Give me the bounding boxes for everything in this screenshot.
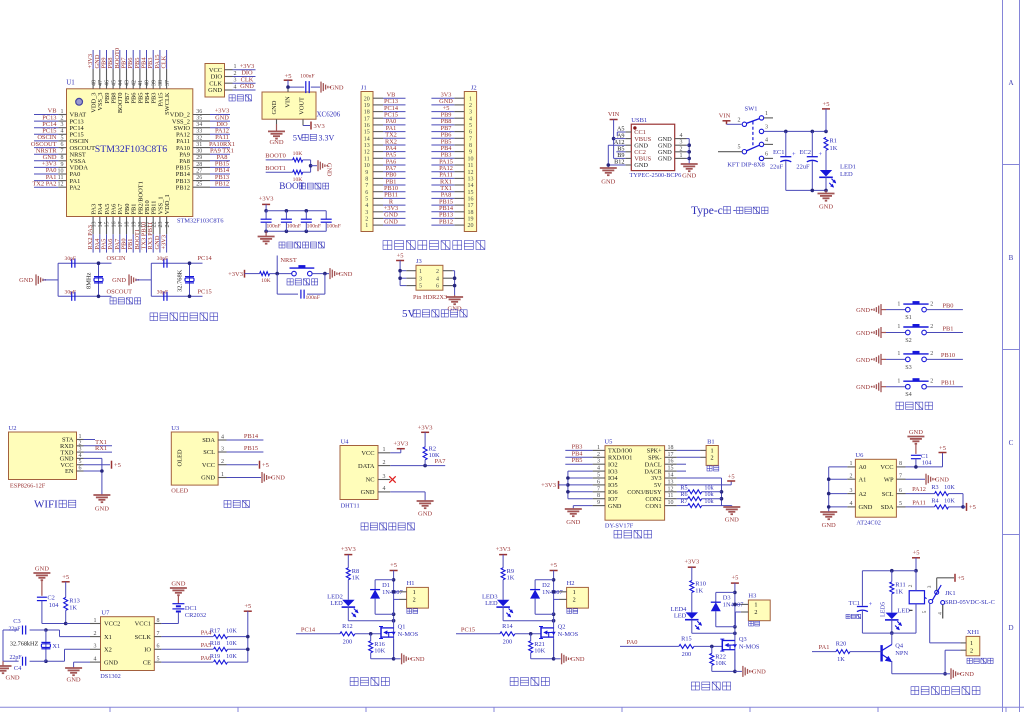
U7 pin 7 SCLK xyxy=(135,631,162,641)
svg-text:VCC: VCC xyxy=(880,464,893,471)
svg-text:45: 45 xyxy=(111,80,117,86)
svg-text:2: 2 xyxy=(436,269,439,275)
net label PB14 (U3) xyxy=(227,433,264,440)
svg-text:GND: GND xyxy=(271,100,278,114)
svg-text:PB12: PB12 xyxy=(439,218,453,225)
svg-text:PB15: PB15 xyxy=(244,445,258,452)
title 5V降压3.3V xyxy=(293,133,335,143)
ground (J3) xyxy=(446,295,463,312)
svg-text:GND: GND xyxy=(822,522,836,529)
title 复位电路 xyxy=(287,279,318,285)
title Type-c口-电源电路 xyxy=(691,205,768,217)
svg-text:10: 10 xyxy=(58,168,64,174)
svg-text:8: 8 xyxy=(61,155,64,161)
svg-text:1: 1 xyxy=(419,269,422,275)
U1 pin 24 VDD_1 (bottom) xyxy=(161,194,171,252)
label Pin HDR2X3 xyxy=(413,294,447,301)
wire U6 VCC to +5 xyxy=(906,453,943,469)
push button S4 xyxy=(897,378,963,398)
wire U4 GND xyxy=(390,492,425,501)
J1 pin 3 net +3V3 xyxy=(365,205,405,216)
U1 pin 10 PA0 (left) xyxy=(34,167,80,178)
label 白色底座 (XH1) xyxy=(967,658,993,663)
svg-text:100nF: 100nF xyxy=(287,224,301,230)
svg-text:13: 13 xyxy=(364,143,370,149)
svg-text:10K: 10K xyxy=(226,653,237,660)
svg-text:5: 5 xyxy=(365,197,368,203)
J1 pin 5 net PB11 xyxy=(365,192,405,203)
svg-text:6: 6 xyxy=(899,488,902,494)
svg-text:1: 1 xyxy=(221,472,224,478)
crystal X1 xyxy=(41,642,60,650)
label 钽电容 (TC1) xyxy=(846,614,861,618)
U1 pin 7 NRST (left) xyxy=(34,147,86,158)
connector H2 body xyxy=(559,580,588,608)
svg-text:NPN: NPN xyxy=(895,650,908,657)
power port +3V3 (reset) xyxy=(228,270,259,278)
svg-text:VOUT: VOUT xyxy=(299,97,306,115)
svg-text:U2: U2 xyxy=(9,425,17,432)
svg-text:2: 2 xyxy=(365,217,368,223)
svg-text:24: 24 xyxy=(165,222,171,228)
J1 pin 7 net PB1 xyxy=(365,178,405,189)
ground GND (XC6206) xyxy=(268,119,285,146)
svg-text:6: 6 xyxy=(365,190,368,196)
svg-text:+3V3: +3V3 xyxy=(259,195,274,202)
capacitor 100nF filter 1 xyxy=(261,211,281,232)
wire H3 pins xyxy=(733,603,741,627)
svg-text:PA7: PA7 xyxy=(435,458,447,465)
wire VIN to VBUS pins xyxy=(612,120,626,159)
svg-text:12: 12 xyxy=(468,170,474,176)
title 音乐模块 xyxy=(614,530,652,538)
svg-text:38: 38 xyxy=(158,80,164,86)
svg-text:10K: 10K xyxy=(226,640,237,647)
svg-text:4: 4 xyxy=(365,203,368,209)
svg-text:SRD-05VDC-SL-C: SRD-05VDC-SL-C xyxy=(945,599,995,606)
svg-text:3: 3 xyxy=(597,459,600,465)
LED1 xyxy=(819,164,856,191)
USB1 pin A5 CC1 xyxy=(617,126,646,137)
svg-text:3: 3 xyxy=(79,447,82,453)
svg-text:5: 5 xyxy=(738,145,741,151)
ground port (U6 WP) xyxy=(906,474,950,485)
capacitor 30pF (top, OSCIN) xyxy=(65,256,77,268)
J2 pin 9 net PB4 xyxy=(431,145,472,156)
U5 pin 3 IO2 xyxy=(593,459,618,469)
U5 pin 6 IO5 xyxy=(593,479,618,489)
capacitor 30pF (bottom, PC15) xyxy=(157,289,169,301)
J2 pin 2 net GND xyxy=(431,98,472,109)
power port +5 (R13) xyxy=(62,574,70,598)
svg-text:VCC: VCC xyxy=(361,450,374,457)
power port +5 (section 2) xyxy=(550,562,558,659)
U3 pin 1 GND xyxy=(201,472,226,482)
svg-text:10k: 10k xyxy=(704,498,714,505)
svg-text:VDD_1: VDD_1 xyxy=(164,194,171,214)
svg-text:12: 12 xyxy=(58,182,64,188)
svg-text:22pF: 22pF xyxy=(9,627,22,633)
power port +5 (J3) xyxy=(396,253,404,286)
ground port (section 3) xyxy=(743,666,766,677)
LED LED5 xyxy=(880,602,913,635)
net label PA4 / resistor R17 10K xyxy=(161,627,247,638)
svg-text:17: 17 xyxy=(364,116,370,122)
resistor R12 200 xyxy=(340,623,381,646)
svg-text:+3V3: +3V3 xyxy=(341,546,356,553)
svg-text:5: 5 xyxy=(157,656,160,662)
connector J2 body xyxy=(464,84,476,231)
wire SDA PA11 R4 xyxy=(906,500,935,507)
svg-text:+3V3: +3V3 xyxy=(541,482,556,489)
svg-text:37: 37 xyxy=(165,80,171,86)
label 接口 (H2) xyxy=(567,609,578,614)
U7 pin 2 X1 xyxy=(90,631,112,641)
svg-text:GND: GND xyxy=(601,179,615,186)
svg-text:40: 40 xyxy=(145,80,151,86)
U2 pin 3 TXD xyxy=(60,447,83,457)
ground (DC1 top) xyxy=(170,581,187,604)
svg-text:PC15: PC15 xyxy=(461,627,475,634)
power port +5 (U6) xyxy=(939,445,947,453)
download port pin 1 VCC xyxy=(209,63,256,74)
capacitor EC2 22uF xyxy=(796,131,822,190)
svg-text:2: 2 xyxy=(79,440,82,446)
svg-text:R17: R17 xyxy=(210,627,220,634)
net label PB3 (U5) xyxy=(565,443,592,450)
U5 pin 11 CON2 xyxy=(645,493,676,503)
title 单片机引脚外引排针 xyxy=(383,241,485,250)
svg-text:SCL: SCL xyxy=(203,449,215,456)
svg-text:H2: H2 xyxy=(567,580,575,587)
title 继电器控制输出 xyxy=(911,687,980,695)
svg-text:SWCLK: SWCLK xyxy=(164,92,171,115)
regulator U?? XC6206 body xyxy=(262,92,341,119)
title 输出控制 (section 3) xyxy=(691,682,730,690)
U1 pin 22 PB11 (bottom) xyxy=(147,201,157,253)
svg-text:1: 1 xyxy=(383,447,386,453)
net label PA0 xyxy=(620,639,679,646)
U1 pin 25 PB12 (right) xyxy=(176,180,230,191)
svg-text:DS1302: DS1302 xyxy=(100,673,121,680)
U4 pin 2 DATA xyxy=(358,460,390,470)
wire LED to drain (section 2) xyxy=(503,619,555,623)
net label PB1 xyxy=(942,325,953,332)
svg-text:C: C xyxy=(1009,439,1014,447)
connector J3 body xyxy=(416,258,443,290)
svg-text:29: 29 xyxy=(196,155,202,161)
wire source to ground (section 1) xyxy=(371,639,401,661)
relay bottom bus wire xyxy=(862,632,916,634)
svg-text:JK1: JK1 xyxy=(945,590,955,597)
LED LED4 xyxy=(671,606,702,633)
J1 pin 13 net RX2 xyxy=(364,138,406,149)
svg-text:2: 2 xyxy=(383,460,386,466)
svg-text:C2: C2 xyxy=(47,595,54,602)
J3 left bus junctions xyxy=(398,269,402,280)
svg-text:4: 4 xyxy=(469,116,472,122)
J2 pin 8 net PB5 xyxy=(431,138,472,149)
svg-text:GND: GND xyxy=(269,139,283,146)
svg-text:1K: 1K xyxy=(895,588,903,595)
svg-text:7: 7 xyxy=(365,183,368,189)
crystal 32.768K xyxy=(177,269,195,292)
wire BOOT junction xyxy=(309,160,317,172)
J3 pins row 2 xyxy=(400,276,455,282)
module U3 OLED body xyxy=(171,425,218,495)
svg-text:+5: +5 xyxy=(969,504,976,511)
svg-text:GND: GND xyxy=(909,429,923,436)
svg-text:PB5: PB5 xyxy=(572,457,583,464)
svg-text:R7: R7 xyxy=(680,498,687,505)
wire SPK+ to B1 xyxy=(677,449,700,451)
power port VIN (USB) xyxy=(608,111,620,119)
svg-text:GND: GND xyxy=(35,565,49,572)
svg-text:+3V3: +3V3 xyxy=(684,559,699,566)
capacitor 30pF (top, PC14) xyxy=(157,256,169,268)
svg-text:A: A xyxy=(1008,79,1013,87)
power port +3V3 (R2) xyxy=(418,424,433,447)
U1 pin 39 PB3 (top) xyxy=(147,50,157,104)
U7 pin 3 X2 xyxy=(90,644,112,654)
net label OSCOUT xyxy=(107,288,133,295)
svg-text:+3V3: +3V3 xyxy=(496,546,511,553)
svg-text:OLED: OLED xyxy=(171,488,188,495)
wire CC2 stub xyxy=(616,151,625,153)
resistor R11 1K xyxy=(890,571,906,613)
U1 pin 36 VDD_2 (right) xyxy=(170,108,230,119)
svg-text:Q1: Q1 xyxy=(398,624,406,631)
U4 pin 3 NC xyxy=(366,474,391,484)
ground port (relay) xyxy=(951,668,974,679)
svg-text:GND: GND xyxy=(361,489,375,496)
svg-text:18: 18 xyxy=(364,110,370,116)
J2 pin 13 net PA11 xyxy=(431,172,473,183)
U5 pin 10 CON1 xyxy=(645,500,676,510)
svg-text:22uF: 22uF xyxy=(796,164,810,171)
power port +5 (relay contact) xyxy=(955,574,964,582)
svg-text:8MHz: 8MHz xyxy=(86,272,93,288)
svg-text:11: 11 xyxy=(468,163,474,169)
svg-text:SDA: SDA xyxy=(881,504,894,511)
svg-text:4: 4 xyxy=(436,276,439,282)
capacitor 100nF (XC6206) xyxy=(300,73,314,93)
svg-text:H1: H1 xyxy=(407,580,415,587)
power port +3V3 (section 3) xyxy=(684,559,699,581)
svg-text:30: 30 xyxy=(196,149,202,155)
svg-text:STM32F103C8T6: STM32F103C8T6 xyxy=(177,218,224,225)
svg-text:1K: 1K xyxy=(695,587,703,594)
svg-text:LED: LED xyxy=(898,608,911,615)
capacitor TC1 tantalum xyxy=(849,571,873,633)
relay top bus wire xyxy=(862,569,916,573)
svg-text:GND: GND xyxy=(330,84,344,91)
module U6 AT24C02 body xyxy=(855,452,896,526)
U1 pin 33 PA12 (right) xyxy=(176,128,230,139)
battery DC1 CR2032 xyxy=(172,604,206,624)
resistor R6 10k xyxy=(677,491,722,501)
svg-text:11: 11 xyxy=(364,156,370,162)
svg-text:GND: GND xyxy=(171,581,185,588)
svg-text:14: 14 xyxy=(98,222,104,228)
svg-text:200: 200 xyxy=(682,651,691,658)
U1 pin 23 VSS_1 (bottom) xyxy=(154,196,164,252)
svg-text:1K: 1K xyxy=(830,145,838,152)
capacitor 100nF filter 3 xyxy=(301,211,321,232)
resistor R15 200 xyxy=(679,635,722,658)
svg-text:GND: GND xyxy=(418,511,432,518)
U1 pin 4 PC15 (left) xyxy=(34,128,84,139)
U3 pin 3 SCL xyxy=(203,446,226,456)
svg-text:11: 11 xyxy=(58,175,64,181)
svg-text:6: 6 xyxy=(469,130,472,136)
svg-text:AT24C02: AT24C02 xyxy=(856,520,881,527)
svg-text:6: 6 xyxy=(436,284,439,290)
wire H1 pins xyxy=(392,590,399,614)
power port +3V3 (U5) xyxy=(541,481,568,489)
ground (USB right) xyxy=(681,164,698,180)
svg-text:3: 3 xyxy=(927,585,933,588)
svg-text:4: 4 xyxy=(94,656,97,662)
net label BOOT0 xyxy=(265,153,292,160)
U5 pin 15 DACR xyxy=(644,466,676,476)
net label PC14 xyxy=(198,255,213,262)
svg-text:GND: GND xyxy=(608,503,622,510)
svg-text:GND: GND xyxy=(411,656,425,663)
ground (U5 right) xyxy=(723,507,740,524)
J2 pin 17 net PB15 xyxy=(431,198,473,209)
svg-text:+5: +5 xyxy=(285,73,292,80)
svg-text:30pF: 30pF xyxy=(157,289,169,295)
svg-text:BOOT0: BOOT0 xyxy=(265,153,286,160)
USB1 GND pin 2 (right) xyxy=(658,146,687,156)
svg-text:3: 3 xyxy=(850,488,853,494)
svg-text:31: 31 xyxy=(196,142,202,148)
title 温湿度传感器 xyxy=(361,523,415,530)
ground (U7) xyxy=(65,668,82,684)
U2 pin 5 VCC xyxy=(60,459,83,469)
diode D2 1N4007 xyxy=(530,580,563,614)
U2 pin 2 RXD xyxy=(60,440,84,450)
U1 pin 15 PA5 (bottom) xyxy=(101,204,111,253)
U4 pin 4 GND xyxy=(361,486,391,496)
svg-text:2: 2 xyxy=(930,351,933,357)
diode D3 1N4007 xyxy=(711,592,744,626)
svg-text:2: 2 xyxy=(738,118,741,124)
resistor R16 10K (pulldown) xyxy=(369,634,386,659)
svg-text:R15: R15 xyxy=(681,635,692,642)
download port pin 2 DIO xyxy=(211,70,256,81)
module U2 ESP8266-12F body xyxy=(9,425,77,490)
svg-text:9: 9 xyxy=(469,150,472,156)
svg-text:4: 4 xyxy=(383,486,386,492)
svg-text:+5: +5 xyxy=(262,462,269,469)
svg-text:GND: GND xyxy=(271,475,285,482)
capacitor C2 104 xyxy=(37,595,66,624)
wire U5 IO bus +3V3 xyxy=(566,471,592,499)
transistor Q1 N-MOS xyxy=(379,624,419,639)
svg-text:100nF: 100nF xyxy=(307,224,321,230)
svg-text:2: 2 xyxy=(94,631,97,637)
svg-text:J3: J3 xyxy=(416,258,422,265)
svg-text:U5: U5 xyxy=(604,439,612,446)
svg-text:VCC2: VCC2 xyxy=(104,621,120,628)
svg-text:104: 104 xyxy=(49,602,59,609)
wire A12 B12 to GND xyxy=(607,145,626,168)
svg-text:PB12: PB12 xyxy=(176,184,190,191)
svg-text:44: 44 xyxy=(118,80,124,86)
resistor R21 10K (pulldown) xyxy=(529,634,546,659)
svg-text:2: 2 xyxy=(413,597,416,604)
title 单片机最小系统 xyxy=(150,313,218,321)
capacitor C3 22pF xyxy=(9,618,26,635)
wire SPK- to B1 xyxy=(677,456,700,458)
U1 pin 2 PC13 (left) xyxy=(34,114,84,125)
crystal X1 32.768kHZ circuit wires xyxy=(3,628,90,665)
U5 pin 4 IO3 xyxy=(593,466,618,476)
svg-text:VIN: VIN xyxy=(608,111,620,118)
svg-text:33: 33 xyxy=(196,129,202,135)
svg-text:TYPEC-2500-BCP6: TYPEC-2500-BCP6 xyxy=(630,172,682,179)
U1 pin 45 PB8 (top) xyxy=(107,50,117,104)
svg-text:2: 2 xyxy=(754,609,757,616)
svg-text:36: 36 xyxy=(196,109,202,115)
svg-text:GND: GND xyxy=(95,506,109,513)
svg-text:10: 10 xyxy=(364,163,370,169)
power port +3V3 (section 1) xyxy=(341,546,356,568)
ground (USB left) xyxy=(600,168,617,186)
svg-text:4: 4 xyxy=(597,466,600,472)
svg-text:S1: S1 xyxy=(905,314,912,321)
svg-text:1: 1 xyxy=(573,589,576,596)
svg-text:J1: J1 xyxy=(361,84,367,91)
title 独立按键 xyxy=(896,402,933,409)
U6 pin 4 GND xyxy=(847,501,873,511)
svg-text:7: 7 xyxy=(899,474,902,480)
svg-text:PB12: PB12 xyxy=(215,180,229,187)
svg-text:8: 8 xyxy=(365,177,368,183)
svg-text:1: 1 xyxy=(850,461,853,467)
svg-text:CR2032: CR2032 xyxy=(185,612,206,619)
svg-text:NC: NC xyxy=(366,477,375,484)
net label PA6 / resistor R19 10K xyxy=(161,653,247,664)
svg-text:10K: 10K xyxy=(261,278,271,284)
svg-text:32: 32 xyxy=(196,135,202,141)
net label PC15 xyxy=(198,288,212,295)
svg-text:+5: +5 xyxy=(114,462,121,469)
svg-text:25: 25 xyxy=(196,182,202,188)
resistor 10K (BOOT1) xyxy=(293,170,311,183)
svg-text:-: - xyxy=(733,205,736,216)
power port +5 (R4) xyxy=(967,503,976,511)
net label PB11 xyxy=(941,380,955,387)
ground port (S2) xyxy=(856,327,905,338)
svg-text:1: 1 xyxy=(765,111,768,117)
U6 pin 1 A0 xyxy=(847,461,866,471)
svg-text:17: 17 xyxy=(668,452,674,458)
svg-text:R3: R3 xyxy=(931,484,938,491)
connector H1 body xyxy=(399,580,428,608)
svg-text:2: 2 xyxy=(908,584,914,587)
svg-text:R18: R18 xyxy=(210,640,220,647)
svg-text:EC2: EC2 xyxy=(799,149,811,156)
svg-text:XC6206: XC6206 xyxy=(317,111,341,119)
ground port (section 2) xyxy=(562,653,585,664)
U1 pin 21 PB10 (bottom) xyxy=(141,200,151,252)
svg-text:SCLK: SCLK xyxy=(135,634,152,641)
svg-text:200: 200 xyxy=(503,638,512,645)
filter caps bus wires xyxy=(264,209,326,233)
